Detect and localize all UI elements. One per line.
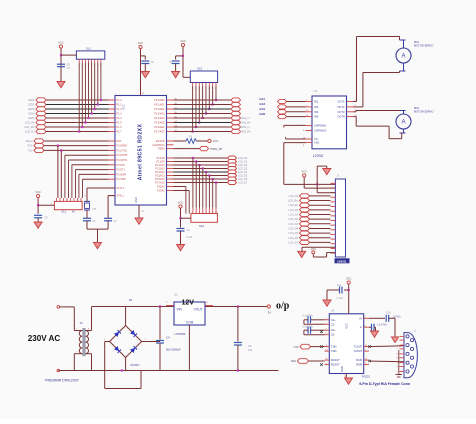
svg-text:P0.7/AD7: P0.7/AD7	[154, 131, 165, 134]
svg-text:GND: GND	[134, 197, 138, 203]
svg-text:24M: 24M	[92, 209, 96, 211]
svg-text:In21: In21	[260, 107, 266, 111]
svg-text:R1IN: R1IN	[356, 358, 362, 362]
svg-text:LCD_En: LCD_En	[289, 204, 299, 207]
svg-text:SL4: SL4	[199, 224, 204, 228]
svg-text:P3.7/RD: P3.7/RD	[117, 178, 126, 181]
svg-text:LED5: LED5	[28, 116, 35, 120]
svg-text:5: 5	[326, 333, 327, 335]
svg-text:12: 12	[326, 359, 328, 361]
svg-text:R2IN: R2IN	[356, 363, 362, 367]
svg-text:230V AC: 230V AC	[28, 334, 61, 343]
svg-text:A: A	[401, 120, 405, 126]
svg-text:P1.6: P1.6	[117, 126, 123, 129]
svg-text:V-: V-	[360, 325, 363, 329]
svg-text:LCD_D6: LCD_D6	[288, 237, 298, 240]
svg-text:SL2: SL2	[62, 210, 67, 214]
svg-text:In22: In22	[260, 112, 266, 116]
svg-text:7: 7	[365, 350, 366, 352]
svg-text:M02: M02	[414, 106, 420, 110]
svg-text:IN4007: IN4007	[131, 363, 140, 367]
svg-text:P1.0: P1.0	[117, 99, 123, 102]
svg-text:12V: 12V	[182, 299, 195, 306]
svg-text:7: 7	[397, 349, 398, 351]
svg-text:1uF/50v: 1uF/50v	[393, 317, 402, 319]
svg-text:P3.0A0: P3.0A0	[157, 190, 165, 193]
svg-text:VCC: VCC	[138, 41, 144, 45]
svg-text:P2.1/A9: P2.1/A9	[156, 161, 165, 164]
svg-text:VCC: VCC	[180, 39, 186, 43]
svg-text:6: 6	[397, 340, 398, 342]
svg-text:TxD: TxD	[28, 148, 33, 152]
svg-text:P2.6/A14: P2.6/A14	[155, 178, 165, 181]
svg-text:PWN_SP: PWN_SP	[211, 147, 223, 151]
svg-text:P1.7: P1.7	[117, 131, 123, 134]
svg-text:P1.2: P1.2	[117, 108, 123, 111]
svg-text:COM: COM	[186, 321, 194, 325]
svg-text:C4: C4	[166, 336, 170, 340]
svg-text:Reset: Reset	[26, 139, 33, 143]
svg-text:0.1uF/50v: 0.1uF/50v	[303, 316, 314, 318]
svg-text:104: 104	[248, 349, 253, 352]
svg-text:P0.3/AD3: P0.3/AD3	[154, 113, 165, 116]
svg-text:P3.1/TXD: P3.1/TXD	[117, 149, 128, 152]
svg-text:U2: U2	[331, 309, 335, 313]
svg-text:P3.2/INT0: P3.2/INT0	[117, 154, 128, 157]
svg-text:LCD_D1: LCD_D1	[288, 214, 298, 217]
svg-text:XTAL2: XTAL2	[117, 187, 125, 190]
svg-text:In12: In12	[260, 102, 266, 106]
svg-text:VCC: VCC	[58, 40, 64, 44]
svg-text:0.1uF/50v: 0.1uF/50v	[377, 325, 388, 327]
svg-text:5V: 5V	[268, 311, 272, 315]
svg-text:P3.6/WR: P3.6/WR	[117, 173, 127, 176]
svg-text:3: 3	[397, 354, 398, 356]
svg-text:T1IN: T1IN	[331, 345, 337, 349]
svg-text:VOUT: VOUT	[194, 308, 203, 312]
svg-text:Atmel 89C51 RD2XX: Atmel 89C51 RD2XX	[138, 124, 144, 181]
svg-text:A: A	[401, 54, 405, 60]
svg-text:SL3: SL3	[197, 67, 202, 71]
svg-text:6: 6	[365, 326, 366, 328]
svg-text:C1-: C1-	[331, 322, 335, 326]
svg-text:P0.4/AD4: P0.4/AD4	[154, 117, 165, 120]
svg-text:T1OUT: T1OUT	[354, 345, 363, 349]
svg-text:L293D: L293D	[313, 154, 324, 158]
svg-text:P3.3/INT1: P3.3/INT1	[117, 159, 128, 162]
svg-text:P0.6/AD6: P0.6/AD6	[154, 126, 165, 129]
svg-text:P1.5: P1.5	[117, 122, 123, 125]
svg-text:4: 4	[397, 363, 398, 365]
svg-text:EA/VPP: EA/VPP	[156, 140, 165, 143]
svg-text:IN1: IN1	[314, 100, 319, 104]
svg-text:LCD_D3: LCD_D3	[288, 223, 298, 226]
svg-text:P0.5/AD5: P0.5/AD5	[154, 122, 165, 125]
svg-text:RxD: RxD	[27, 144, 32, 148]
svg-text:LCD_Rs: LCD_Rs	[289, 195, 299, 198]
svg-text:LCD_En: LCD_En	[25, 130, 35, 134]
svg-text:5: 5	[397, 371, 398, 373]
svg-text:EN2_In: EN2_In	[242, 126, 251, 129]
svg-text:LCD_Rw: LCD_Rw	[24, 125, 35, 129]
svg-text:C6: C6	[151, 60, 155, 64]
svg-text:In11: In11	[260, 97, 266, 101]
svg-text:9-Pin D-Typf RIA Female Conn: 9-Pin D-Typf RIA Female Conn	[359, 382, 410, 386]
svg-text:D1: D1	[129, 298, 133, 302]
svg-text:P0.0/AD0: P0.0/AD0	[154, 99, 165, 102]
svg-text:8: 8	[365, 363, 366, 365]
svg-text:VCC: VCC	[311, 248, 316, 251]
svg-text:10: 10	[326, 350, 328, 352]
svg-text:C2+: C2+	[331, 328, 336, 332]
svg-text:LCD_Rw: LCD_Rw	[288, 200, 298, 203]
svg-text:LCD_Rs: LCD_Rs	[25, 121, 36, 125]
svg-text:P2.0/A8: P2.0/A8	[156, 157, 165, 160]
svg-text:VCC: VCC	[301, 169, 307, 173]
svg-text:LCD_D7: LCD_D7	[238, 182, 248, 185]
svg-text:U2: U2	[174, 293, 178, 297]
svg-text:IN3: IN3	[314, 110, 319, 114]
svg-text:RS232: RS232	[362, 375, 370, 379]
svg-text:OUT1: OUT1	[337, 100, 345, 104]
svg-text:8: 8	[397, 358, 398, 360]
svg-text:OUT3: OUT3	[337, 110, 345, 114]
svg-text:VSS: VSS	[314, 140, 319, 144]
svg-text:V+: V+	[359, 316, 363, 320]
svg-text:C11: C11	[337, 284, 342, 287]
svg-text:RxD: RxD	[291, 359, 296, 363]
svg-text:VCC: VCC	[35, 190, 41, 194]
svg-text:LED2: LED2	[28, 103, 35, 107]
svg-text:VCC: VCC	[122, 104, 126, 110]
svg-text:VS: VS	[314, 137, 318, 141]
svg-text:PSEN: PSEN	[158, 148, 165, 151]
svg-text:9: 9	[397, 366, 398, 368]
svg-text:U4: U4	[314, 89, 318, 93]
svg-text:ALE/PROG: ALE/PROG	[152, 144, 164, 147]
svg-text:T2OUT: T2OUT	[354, 349, 363, 353]
svg-text:EN1_In: EN1_In	[242, 117, 251, 120]
svg-text:LED3: LED3	[28, 107, 35, 111]
svg-text:P0.2/AD2: P0.2/AD2	[154, 108, 165, 111]
svg-text:P3.4/T0: P3.4/T0	[117, 164, 126, 167]
svg-text:1: 1	[326, 318, 327, 320]
svg-text:9: 9	[326, 363, 327, 365]
svg-text:2: 2	[365, 317, 366, 319]
svg-text:..: ..	[388, 271, 390, 275]
svg-text:IN2: IN2	[314, 105, 319, 109]
svg-text:CHIP/INH1: CHIP/INH1	[314, 125, 327, 128]
svg-text:C5: C5	[248, 344, 252, 348]
svg-text:3: 3	[326, 323, 327, 325]
svg-text:VCC: VCC	[213, 139, 219, 143]
svg-text:C14: C14	[386, 312, 391, 315]
svg-text:1: 1	[397, 336, 398, 338]
svg-text:C2-: C2-	[331, 333, 335, 337]
svg-text:VCC: VCC	[178, 200, 184, 204]
svg-text:o/p: o/p	[276, 300, 290, 311]
svg-text:P3.5/T1: P3.5/T1	[117, 169, 126, 172]
svg-text:EN2_Re: EN2_Re	[242, 131, 252, 134]
svg-text:TRNSRMR DPA12/S/T: TRNSRMR DPA12/S/T	[44, 379, 79, 383]
svg-text:P3.0/RXD: P3.0/RXD	[117, 145, 128, 148]
svg-text:EN1_Re: EN1_Re	[242, 122, 252, 125]
svg-text:TxD: TxD	[294, 345, 299, 349]
svg-text:P2.3/A11: P2.3/A11	[155, 168, 165, 171]
svg-text:P2.5/A13: P2.5/A13	[155, 175, 165, 178]
svg-text:VIN: VIN	[177, 308, 183, 312]
svg-text:T2IN: T2IN	[331, 349, 337, 353]
svg-text:4: 4	[326, 329, 327, 331]
svg-text:C1+: C1+	[331, 318, 336, 322]
svg-text:0.1uF/50v: 0.1uF/50v	[303, 326, 314, 328]
svg-text:P1.1: P1.1	[117, 104, 123, 107]
svg-text:VCC: VCC	[346, 276, 352, 280]
svg-text:OUT4: OUT4	[337, 115, 345, 119]
svg-text:2: 2	[397, 345, 398, 347]
svg-text:RST: RST	[117, 140, 122, 143]
svg-text:LED4: LED4	[28, 112, 35, 116]
svg-text:P1.3: P1.3	[117, 113, 123, 116]
svg-text:LM7805: LM7805	[175, 332, 186, 336]
svg-text:R2OUT: R2OUT	[331, 363, 340, 367]
svg-text:R1OUT: R1OUT	[331, 358, 340, 362]
svg-text:MOTOR SERVO: MOTOR SERVO	[414, 110, 433, 114]
svg-text:CHIP/INH2: CHIP/INH2	[314, 130, 327, 133]
svg-text:MOTOR SERVO: MOTOR SERVO	[414, 44, 433, 48]
svg-text:LCD_D2: LCD_D2	[288, 218, 298, 221]
svg-text:LCD_D7: LCD_D7	[288, 241, 298, 244]
svg-text:50v/1000uF: 50v/1000uF	[166, 348, 181, 352]
svg-text:11: 11	[326, 345, 328, 347]
svg-text:SL1: SL1	[86, 47, 91, 51]
svg-text:XTAL1: XTAL1	[117, 195, 125, 198]
svg-text:0.1uF: 0.1uF	[337, 298, 343, 300]
svg-text:P2.4/A12: P2.4/A12	[155, 171, 165, 174]
svg-text:P3.0A0: P3.0A0	[157, 186, 165, 189]
svg-text:P1.4: P1.4	[117, 117, 123, 120]
svg-text:P2.7/A15: P2.7/A15	[155, 182, 165, 185]
svg-text:P0.1/AD1: P0.1/AD1	[154, 104, 165, 107]
svg-text:LCD_D4: LCD_D4	[288, 227, 298, 230]
svg-text:LM032L: LM032L	[337, 259, 347, 263]
svg-text:LED1: LED1	[28, 98, 35, 102]
svg-text:IN4: IN4	[314, 115, 319, 119]
svg-text:P2.2/A10: P2.2/A10	[155, 164, 165, 167]
svg-text:...: ...	[75, 268, 78, 272]
svg-text:LCD_D0: LCD_D0	[288, 209, 298, 212]
svg-text:C7: C7	[169, 60, 173, 64]
svg-text:GND: GND	[340, 366, 344, 372]
svg-text:M01: M01	[414, 40, 420, 44]
svg-text:LCD_D5: LCD_D5	[288, 232, 298, 235]
svg-text:VCC: VCC	[345, 323, 349, 329]
svg-text:T1: T1	[79, 321, 83, 325]
svg-text:0.1uF: 0.1uF	[187, 237, 193, 239]
svg-text:OUT2: OUT2	[337, 105, 345, 109]
svg-text:14: 14	[365, 345, 367, 347]
svg-text:13: 13	[365, 359, 367, 361]
